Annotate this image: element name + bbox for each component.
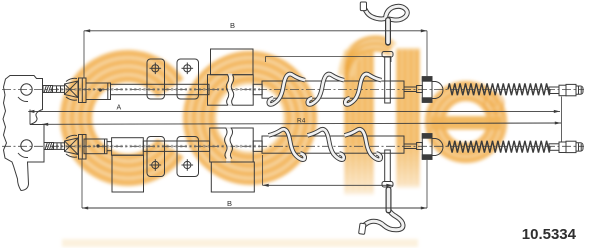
spiral tube top	[262, 81, 404, 98]
bracket hole bottom	[21, 140, 32, 151]
end rod bottom	[549, 144, 559, 151]
mounting tab T3	[147, 137, 165, 177]
spiral loops bottom	[269, 129, 305, 159]
dome cap top	[432, 82, 443, 99]
boot bottom	[210, 128, 254, 162]
conduit mid top	[253, 84, 262, 94]
clevis top	[65, 81, 79, 98]
threaded rod bottom	[44, 143, 54, 150]
box below boot	[211, 162, 254, 192]
cable strand texture top	[56, 88, 260, 91]
svg-text:B: B	[227, 199, 232, 208]
collar bottom	[417, 143, 423, 150]
cylinder top	[86, 83, 111, 100]
conduit top left	[111, 84, 210, 94]
svg-text:A: A	[117, 105, 122, 112]
svg-text:B: B	[230, 21, 235, 30]
threaded rod top	[43, 86, 53, 93]
spring top	[448, 83, 550, 95]
svg-text:10.5334: 10.5334	[522, 226, 577, 243]
clip pin bottom	[385, 150, 391, 182]
flange plate top	[79, 78, 87, 103]
mounting tab T4	[177, 137, 199, 177]
bracket plate top right	[422, 77, 432, 103]
bottom hanger hook	[363, 209, 404, 230]
centerline top cable	[2, 88, 584, 90]
bracket boss arcs	[18, 97, 28, 102]
mounting tab T1	[147, 59, 165, 99]
svg-text:R: R	[490, 98, 498, 110]
dimension B bottom	[82, 207, 427, 209]
collar top	[417, 86, 423, 93]
cable end barrel bottom	[559, 142, 566, 153]
cable strand texture bottom	[56, 145, 260, 148]
rod bottom	[107, 141, 112, 143]
centerline bottom cable	[2, 145, 584, 147]
dimension A	[28, 110, 560, 112]
mounting tab T2	[177, 59, 199, 99]
adjuster barrel top	[53, 86, 65, 93]
boot top	[208, 75, 254, 106]
svg-text:R4: R4	[297, 118, 306, 125]
clevis bottom	[65, 138, 79, 155]
flange plate bottom	[79, 135, 87, 160]
rod to fitting top	[404, 86, 417, 88]
hanging plate	[112, 155, 144, 192]
adjuster barrel bottom	[54, 143, 65, 150]
bracket hole top	[21, 84, 32, 95]
upper box	[211, 49, 254, 75]
top hanger hook	[364, 6, 408, 20]
right reference line	[561, 97, 563, 142]
dimension B top	[84, 30, 427, 32]
bracket plate bottom right	[422, 134, 432, 160]
cable end barrel top	[559, 85, 566, 96]
rod to fitting bottom	[404, 143, 417, 145]
sleeve bottom	[112, 138, 144, 156]
spiral tube bottom	[262, 136, 404, 153]
equalizer bracket	[3, 76, 44, 191]
spiral span line bottom	[263, 184, 393, 186]
spiral loops top	[269, 74, 305, 104]
cylinder bottom	[84, 139, 107, 154]
clip pin top	[382, 52, 393, 58]
conduit bottom left	[143, 141, 209, 151]
dimension R4	[42, 123, 561, 124]
spiral span line top	[266, 56, 392, 58]
conduit mid bottom	[253, 141, 262, 151]
end rod top	[549, 87, 559, 94]
dome cap bottom	[432, 139, 443, 156]
spring bottom	[448, 141, 550, 153]
